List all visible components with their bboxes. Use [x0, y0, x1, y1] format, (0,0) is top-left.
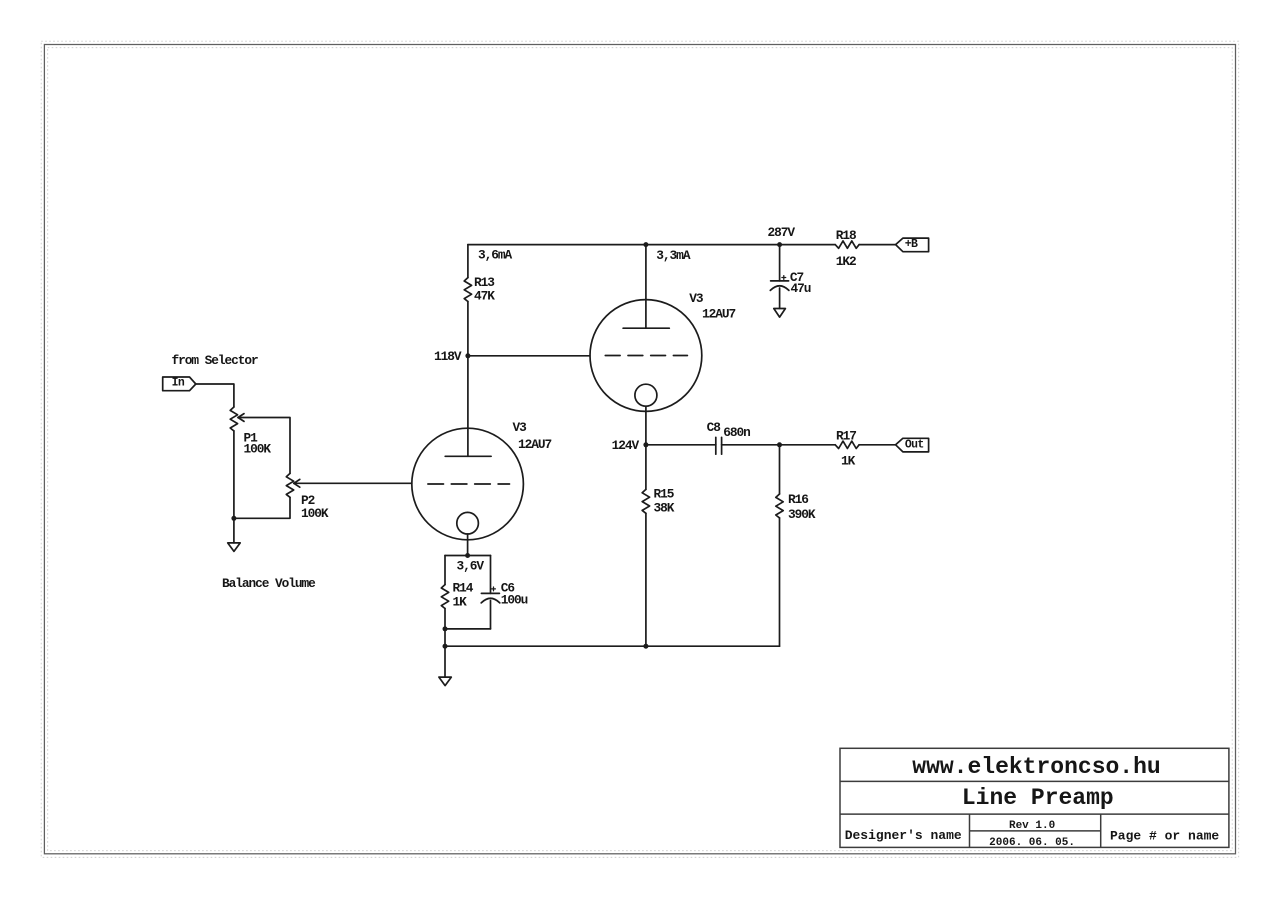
wire C7 top stub — [779, 245, 781, 281]
wire V3b cathode to 124V node — [645, 406, 647, 445]
svg-text:R17: R17 — [836, 429, 856, 444]
wire R17 to Out — [859, 444, 896, 446]
node ground bus left junction — [443, 644, 448, 649]
node 124V — [612, 438, 649, 453]
wire 118V node to tube V3b grid — [468, 355, 590, 357]
svg-text:www.elektroncso.hu: www.elektroncso.hu — [912, 754, 1160, 780]
svg-text:1K: 1K — [841, 454, 856, 469]
wire cathode network bottom — [445, 628, 491, 630]
potentiometer P2 — [286, 473, 329, 521]
wire C6 top stub — [490, 556, 492, 594]
potentiometer P1 — [230, 407, 271, 457]
ground below C7 — [774, 309, 786, 318]
wire R13 bottom to 118V node to tube V3a plate — [467, 302, 469, 457]
wire P1 wiper to P2 top — [238, 418, 290, 474]
node cathode junction — [465, 553, 470, 558]
triode V3b — [590, 291, 736, 411]
node label 3,6V — [457, 559, 485, 574]
wire network bottom to ground bus — [444, 629, 446, 646]
node label 3,6mA — [478, 248, 513, 263]
wire In to P1 top — [196, 384, 234, 407]
wire R14 top stub — [444, 556, 446, 585]
svg-text:680n: 680n — [723, 425, 750, 440]
wire C8 to R17 — [722, 444, 836, 446]
svg-text:47K: 47K — [474, 289, 495, 304]
svg-text:124V: 124V — [612, 438, 640, 453]
svg-text:+B: +B — [905, 238, 918, 251]
wire R18 to +B — [859, 244, 896, 246]
svg-text:3,3mA: 3,3mA — [656, 248, 691, 263]
node R15 ground junction — [643, 644, 648, 649]
connector Out — [896, 438, 929, 452]
wire cathode network top — [445, 555, 491, 557]
node label 287V — [768, 225, 796, 240]
triode V3a — [412, 420, 552, 540]
svg-text:Designer's name: Designer's name — [845, 828, 962, 843]
wire V3b plate to top bus — [645, 245, 647, 329]
node label from Selector — [172, 353, 259, 368]
svg-text:1K: 1K — [453, 595, 468, 610]
svg-text:100u: 100u — [501, 592, 528, 607]
resistor R18 — [835, 228, 859, 269]
svg-text:R14: R14 — [453, 580, 474, 595]
ground below P1/P2 — [228, 518, 241, 551]
wire R14 bottom stub — [444, 609, 446, 629]
svg-text:3,6V: 3,6V — [457, 559, 485, 574]
node R16 junction — [777, 442, 782, 447]
svg-text:R15: R15 — [654, 487, 675, 502]
svg-text:R16: R16 — [788, 492, 808, 507]
resistor R15 — [642, 487, 675, 516]
svg-text:In: In — [172, 376, 185, 389]
svg-text:V3: V3 — [513, 420, 528, 435]
svg-text:Line Preamp: Line Preamp — [962, 785, 1114, 811]
wire top bus from R13 to R18 — [468, 244, 835, 246]
wire R15 bottom to ground bus — [645, 513, 647, 646]
svg-text:100K: 100K — [244, 442, 272, 457]
capacitor C7 — [770, 270, 810, 296]
svg-text:V3: V3 — [689, 291, 704, 306]
svg-text:287V: 287V — [768, 225, 796, 240]
node label Balance Volume — [222, 576, 316, 591]
wire R13 top stub — [467, 245, 469, 278]
wire 124V node to C8 — [646, 444, 716, 446]
ground below cathode network — [439, 646, 451, 685]
wire P2 bottom to ground node — [234, 497, 290, 518]
svg-text:from Selector: from Selector — [172, 353, 259, 368]
svg-text:Page # or name: Page # or name — [1110, 829, 1219, 844]
wire V3a cathode to network — [467, 534, 469, 556]
svg-text:Rev 1.0: Rev 1.0 — [1009, 820, 1055, 832]
wire P2 wiper to tube V3a grid — [294, 482, 412, 484]
svg-text:Out: Out — [905, 438, 924, 451]
svg-text:2006. 06. 05.: 2006. 06. 05. — [989, 837, 1075, 849]
resistor R13 — [464, 275, 495, 304]
svg-text:390K: 390K — [788, 507, 816, 522]
wire C7 bottom stub — [779, 288, 781, 308]
svg-text:C8: C8 — [707, 420, 721, 435]
wire ground bus — [445, 645, 780, 647]
svg-text:R18: R18 — [836, 228, 856, 243]
node P1/P2 ground junction — [231, 516, 236, 521]
svg-text:38K: 38K — [654, 501, 675, 516]
wire R16 top stub — [779, 445, 781, 494]
resistor R17 — [835, 429, 859, 469]
wire R15 top stub — [645, 445, 647, 490]
capacitor C6 — [481, 581, 527, 608]
node network bottom junction — [443, 626, 448, 631]
wire R16 bottom to ground bus — [779, 518, 781, 646]
resistor R16 — [776, 492, 816, 522]
connector In — [163, 376, 196, 390]
node label 3,3mA — [656, 248, 691, 263]
wire P1 bottom to ground node — [233, 431, 235, 518]
node V3b plate on bus — [643, 242, 648, 247]
svg-text:100K: 100K — [301, 506, 329, 521]
node 118V — [434, 349, 470, 364]
svg-text:12AU7: 12AU7 — [518, 437, 552, 452]
svg-text:Balance Volume: Balance Volume — [222, 576, 316, 591]
connector +B — [896, 238, 929, 252]
svg-text:118V: 118V — [434, 349, 462, 364]
svg-text:1K2: 1K2 — [836, 254, 856, 269]
node C7 junction on bus — [777, 242, 782, 247]
svg-text:3,6mA: 3,6mA — [478, 248, 513, 263]
svg-text:12AU7: 12AU7 — [702, 307, 736, 322]
resistor R14 — [441, 580, 473, 609]
capacitor C8 — [707, 420, 751, 454]
wire C6 bottom stub — [490, 601, 492, 629]
svg-text:47u: 47u — [791, 281, 811, 296]
